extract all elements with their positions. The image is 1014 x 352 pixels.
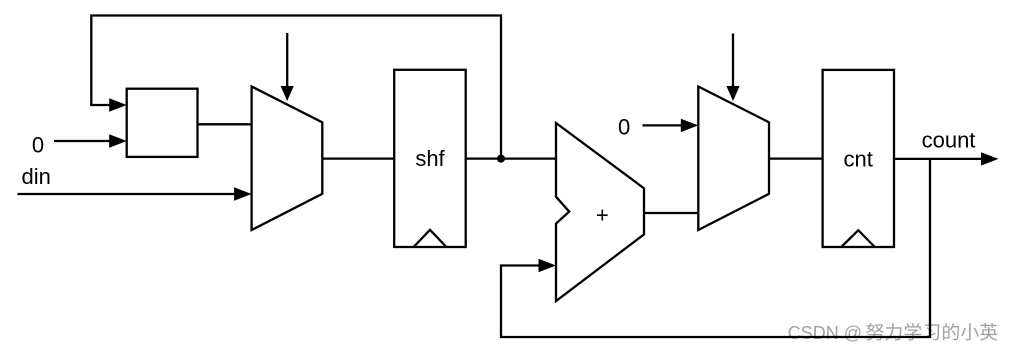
- wire: shf to adder: [466, 157, 556, 159]
- mux M1 (trapezoid): [252, 87, 323, 231]
- watermark glyph 努: [866, 323, 884, 341]
- wire: count feedback down and around to adder lower input: [501, 159, 930, 337]
- wire: mux M1 to register shf: [322, 157, 394, 159]
- wire: adder to mux M2: [644, 212, 698, 214]
- mux M2 (trapezoid): [698, 87, 769, 231]
- adder (+) ALU shape: [556, 123, 644, 301]
- watermark glyph 英: [980, 323, 998, 341]
- watermark: CSDN @努力学习的小英: [788, 323, 998, 343]
- svg-text:CSDN @: CSDN @: [788, 323, 862, 343]
- select arrow into mux M2: [732, 34, 734, 89]
- svg-text:+: +: [596, 202, 609, 227]
- wire: feedback from shf output node up and around to input box: [91, 16, 501, 159]
- select arrow into mux M1: [286, 33, 288, 88]
- register shf: [394, 70, 466, 247]
- wire: mux M2 to register cnt: [769, 157, 823, 159]
- svg-text:count: count: [922, 127, 976, 152]
- wire: 0 into mux M2: [643, 124, 686, 126]
- wire: box to mux M1: [198, 123, 252, 125]
- box: shift input formation (small square): [127, 89, 198, 157]
- watermark glyph 的: [943, 323, 959, 340]
- wire: cnt to count output arrow: [894, 158, 984, 160]
- watermark glyph 小: [961, 323, 979, 340]
- watermark glyph 习: [924, 324, 939, 340]
- register cnt: [823, 70, 894, 247]
- svg-text:0: 0: [32, 133, 44, 158]
- svg-text:din: din: [22, 164, 51, 189]
- svg-text:0: 0: [618, 115, 630, 140]
- wire: 0 into input box: [54, 140, 113, 142]
- watermark glyph 学: [904, 323, 921, 341]
- watermark glyph 力: [885, 323, 901, 341]
- wire: din into mux M1: [18, 193, 239, 195]
- junction node on shf output: [497, 155, 505, 163]
- svg-text:shf: shf: [415, 146, 445, 171]
- svg-text:cnt: cnt: [844, 147, 873, 172]
